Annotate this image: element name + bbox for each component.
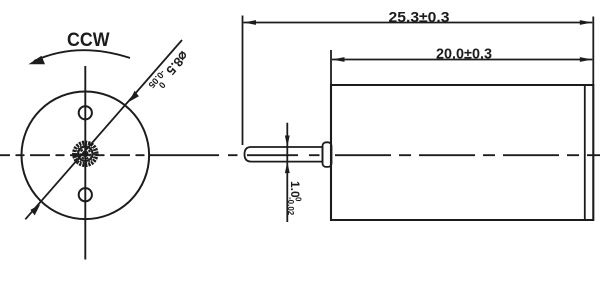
svg-text:1.0: 1.0	[288, 181, 302, 198]
dimension line 20.0	[332, 59, 592, 61]
CCW rotation arc	[34, 50, 130, 61]
svg-text:20.0±0.3: 20.0±0.3	[436, 46, 492, 63]
arrowhead shaft lower (points up)	[285, 162, 290, 174]
arrowhead 20.0 right	[580, 57, 593, 62]
arrowhead 25.3 left	[244, 20, 257, 25]
bearing collar	[323, 142, 332, 167]
horizontal centerline through motor body (long dash-dot)	[335, 154, 600, 156]
svg-text:CCW: CCW	[67, 29, 110, 51]
shaft diameter dimension line upper	[286, 123, 288, 222]
CCW arc arrowhead	[29, 56, 46, 65]
extension line right (body end)	[592, 17, 594, 86]
mounting hole top	[79, 106, 92, 119]
arrowhead lower-left on circle	[30, 204, 40, 215]
arrowhead shaft upper (points down)	[285, 136, 290, 148]
svg-text:25.3±0.3: 25.3±0.3	[389, 10, 450, 26]
shaft (side view)	[245, 147, 323, 162]
shaft knurled cross-section	[74, 143, 97, 166]
side view body outline	[331, 85, 593, 220]
extension line body front face	[330, 50, 332, 85]
svg-text:-0.02: -0.02	[286, 197, 295, 216]
horizontal centerline left view (dash-dot)	[0, 154, 150, 156]
extension line left (shaft tip)	[242, 16, 244, 146]
label shaft diameter 1.0 tolerance (rotated vertical)	[286, 181, 303, 216]
dimension line 25.3	[244, 22, 593, 24]
arrowhead 20.0 left	[332, 57, 345, 62]
front view vertical centerline	[84, 66, 86, 260]
diameter dimension line (diagonal)	[25, 40, 182, 219]
horizontal centerline junction and shaft segment	[150, 154, 320, 156]
arrowhead upper-right on circle	[129, 91, 139, 102]
end cap seam line	[584, 86, 586, 219]
arrowhead 25.3 right	[580, 20, 593, 25]
mounting hole bottom	[79, 188, 92, 201]
label diameter 8.5 tolerance (rotated along diagonal)	[146, 47, 191, 95]
front view outer circle (motor body O.D.)	[22, 92, 150, 220]
